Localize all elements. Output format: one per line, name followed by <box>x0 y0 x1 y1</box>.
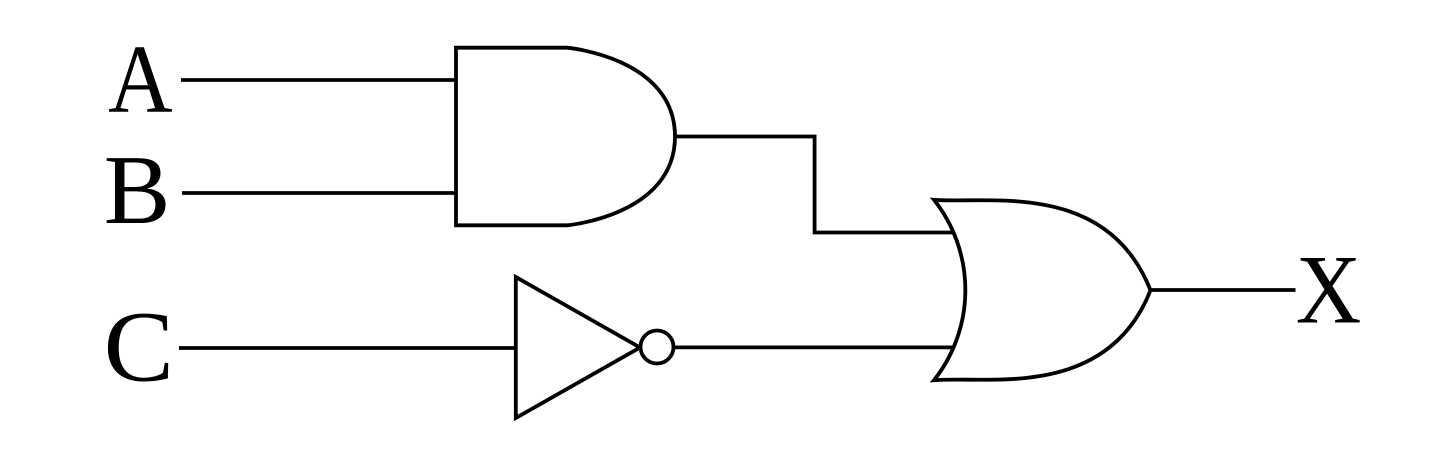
svg-text:B: B <box>104 136 171 245</box>
svg-text:X: X <box>1296 236 1362 345</box>
OR gate U3 <box>934 200 1151 380</box>
AND gate U1 <box>456 48 675 226</box>
wire B to AND input 2 <box>182 191 456 195</box>
wire OR output to X <box>1150 288 1296 292</box>
svg-text:C: C <box>104 291 174 403</box>
NOT gate U2 triangle <box>516 277 640 418</box>
wire A to AND input 1 <box>181 78 456 82</box>
wire NOT output to OR input 2 <box>674 345 954 349</box>
wire AND output to OR input 1 <box>673 137 954 233</box>
wire C to NOT input <box>179 346 515 350</box>
svg-text:A: A <box>108 26 173 133</box>
NOT gate U2 inversion bubble <box>641 331 674 364</box>
